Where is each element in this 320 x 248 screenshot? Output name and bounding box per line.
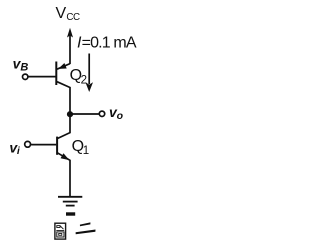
svg-text:CC: CC <box>66 12 80 23</box>
svg-text:=0.1 mA: =0.1 mA <box>82 35 137 52</box>
svg-text:2: 2 <box>81 74 87 86</box>
svg-text:V: V <box>56 5 67 22</box>
svg-text:1: 1 <box>83 145 89 157</box>
svg-text:o: o <box>117 110 124 122</box>
svg-text:B: B <box>20 62 28 74</box>
